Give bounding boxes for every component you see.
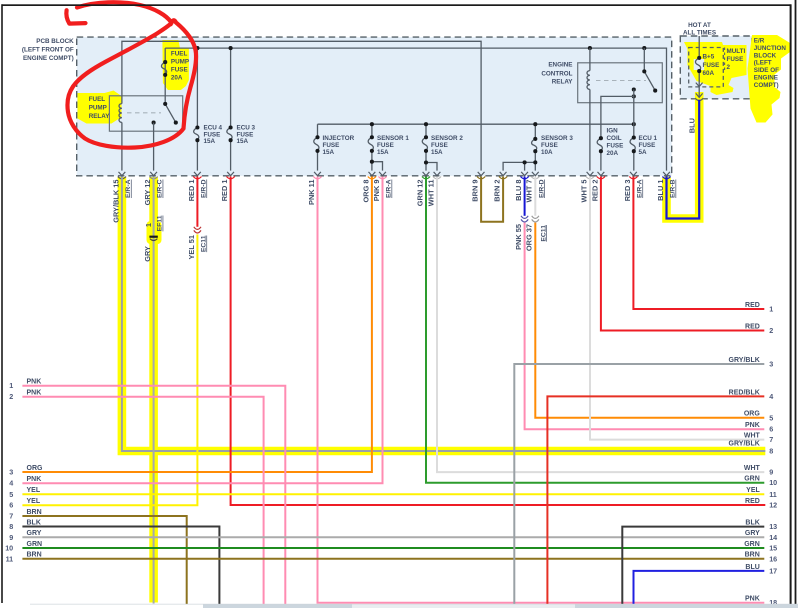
SENSOR 1 fuse dots bbox=[370, 135, 374, 139]
red annotation arrowhead bbox=[66, 10, 85, 23]
svg-text:3: 3 bbox=[9, 468, 13, 477]
svg-text:10: 10 bbox=[769, 478, 777, 487]
block exit arrow and connector cup at x=437 bbox=[434, 172, 441, 176]
svg-text:9: 9 bbox=[769, 468, 773, 477]
svg-text:60A: 60A bbox=[703, 70, 715, 77]
fuel pump fuse F/P 20A squiggle bbox=[161, 62, 166, 75]
wire: SENSOR 3 output tee to BRN 2 and BLU 8 bbox=[503, 162, 535, 170]
SENSOR 2 fuse dots bbox=[424, 135, 428, 139]
svg-text:BRN: BRN bbox=[745, 552, 760, 559]
svg-text:ENGINE COMPT): ENGINE COMPT) bbox=[23, 55, 74, 62]
svg-text:15: 15 bbox=[769, 544, 777, 553]
block exit arrow and connector cup at x=197.4 bbox=[194, 172, 201, 176]
svg-text:15A: 15A bbox=[377, 149, 389, 156]
ECU 3 fuse squiggle cover bbox=[225, 129, 236, 140]
svg-text:BLU 1: BLU 1 bbox=[656, 180, 665, 201]
wire: fuel pump relay coil to GRY/BLK 15 exit bbox=[121, 122, 123, 170]
row 5/11 YEL wire bbox=[22, 493, 764, 495]
B+5 fuse dots bbox=[697, 56, 701, 60]
wire: ECU 4 fuse drop bbox=[196, 48, 198, 171]
svg-text:14: 14 bbox=[769, 533, 777, 542]
svg-text:WHT: WHT bbox=[744, 465, 761, 472]
svg-text:RED: RED bbox=[745, 498, 760, 505]
wire BRN 9 - BRN 2 loop bbox=[481, 177, 503, 222]
ECU 1 fuse squiggle cover bbox=[628, 139, 639, 150]
window edge right line bbox=[795, 0, 797, 606]
ECU 3 fuse squiggle bbox=[227, 128, 232, 141]
wire GRN 12 to right row 10 bbox=[426, 177, 764, 483]
wire: engine control relay coil branch (bus to WHT 5 exit) bbox=[589, 48, 591, 171]
svg-text:YEL: YEL bbox=[27, 487, 41, 494]
svg-text:PNK: PNK bbox=[27, 379, 42, 386]
svg-text:16: 16 bbox=[769, 554, 777, 563]
highlight blob over FUEL PUMP FUSE label bbox=[162, 40, 189, 90]
svg-text:COIL: COIL bbox=[607, 135, 622, 142]
svg-text:ALL TIMES: ALL TIMES bbox=[683, 30, 716, 37]
wire: fuel pump fuse branch (bus to relay switch) bbox=[164, 48, 166, 104]
left row 7 BRN wire bbox=[22, 516, 186, 604]
svg-text:GRN: GRN bbox=[27, 541, 43, 548]
svg-text:1: 1 bbox=[144, 223, 153, 227]
block exit arrow and connector cup at x=666.5 bbox=[663, 172, 670, 176]
svg-text:E/R-C: E/R-C bbox=[157, 179, 164, 198]
B+5 fuse output arrow bbox=[696, 83, 703, 87]
engine control relay box bbox=[578, 63, 663, 103]
svg-text:FUSE: FUSE bbox=[541, 142, 558, 149]
svg-text:BLU: BLU bbox=[745, 564, 759, 571]
EF11 splice symbol on GRY wire bbox=[149, 236, 157, 238]
ECU 1 fuse squiggle bbox=[630, 138, 635, 152]
svg-text:12: 12 bbox=[769, 501, 777, 510]
wire: relay output to sensor bus / ECU 1 fuse / RED 3 exit bbox=[633, 96, 635, 170]
svg-text:PNK 55: PNK 55 bbox=[514, 224, 523, 250]
block exit arrow and connector cup at x=153.6 bbox=[150, 172, 157, 176]
svg-text:FUSE: FUSE bbox=[171, 67, 188, 74]
svg-text:5: 5 bbox=[769, 413, 773, 422]
svg-text:1: 1 bbox=[9, 381, 13, 390]
highlight blob over EF11 splice on GRY wire bbox=[147, 221, 162, 244]
EC11 inline connector chevrons (BLU/PNK) bbox=[521, 216, 528, 219]
svg-text:YEL 51: YEL 51 bbox=[187, 235, 196, 260]
svg-text:INJECTOR: INJECTOR bbox=[323, 135, 355, 142]
highlight blob over E/R JUNCTION BLOCK label bbox=[748, 35, 791, 123]
svg-text:GRY: GRY bbox=[27, 530, 42, 537]
svg-text:IGN: IGN bbox=[607, 128, 619, 135]
svg-text:4: 4 bbox=[769, 392, 773, 401]
svg-text:RED/BLK: RED/BLK bbox=[729, 389, 760, 396]
left row 2 PNK wire bbox=[22, 397, 263, 604]
svg-text:15A: 15A bbox=[323, 149, 335, 156]
wire: sensor fuse bus bbox=[318, 123, 634, 125]
wire: relay output to IGN COIL fuse and RED 2 exit bbox=[601, 90, 634, 171]
svg-text:RELAY: RELAY bbox=[552, 78, 574, 85]
svg-text:GRY 12: GRY 12 bbox=[143, 180, 152, 206]
engine control relay dashed actuator link bbox=[596, 80, 646, 82]
svg-text:BRN 9: BRN 9 bbox=[471, 180, 480, 202]
engine control relay switch dots bbox=[642, 69, 646, 73]
wire PNK 11 to right row 18 bbox=[318, 177, 765, 603]
svg-text:6: 6 bbox=[9, 501, 13, 510]
svg-text:ECU 1: ECU 1 bbox=[639, 135, 658, 142]
right row 4 RED/BLK wire bbox=[547, 396, 764, 604]
block exit arrow and connector cup at x=590 bbox=[587, 172, 594, 176]
svg-text:2: 2 bbox=[9, 392, 13, 401]
left row 8 BLK wire bbox=[22, 527, 219, 605]
svg-text:E/R-D: E/R-D bbox=[538, 179, 545, 198]
bottom gray band lighter segment bbox=[352, 604, 575, 608]
B+5 fuse inner dashed box bbox=[689, 48, 724, 87]
svg-text:4: 4 bbox=[9, 479, 13, 488]
svg-text:BRN 2: BRN 2 bbox=[493, 180, 502, 202]
svg-text:FUEL: FUEL bbox=[89, 96, 106, 103]
svg-text:FUEL: FUEL bbox=[171, 51, 188, 58]
svg-text:WHT: WHT bbox=[744, 433, 761, 440]
svg-text:GRY: GRY bbox=[745, 530, 760, 537]
B+5 fuse squiggle bbox=[695, 58, 700, 71]
svg-text:20A: 20A bbox=[607, 150, 619, 157]
svg-text:SENSOR 3: SENSOR 3 bbox=[541, 135, 573, 142]
ECU 3 fuse drop bbox=[230, 48, 232, 171]
IGN COIL fuse squiggle bbox=[597, 138, 602, 151]
SENSOR 3 fuse dots bbox=[533, 137, 537, 141]
wire: SENSOR 1 fuse drop and split bbox=[372, 124, 383, 170]
bottom edge hairline bbox=[30, 603, 798, 606]
svg-text:FUSE: FUSE bbox=[639, 142, 656, 149]
block exit arrow and connector cup at x=230.6 bbox=[227, 172, 234, 176]
svg-text:WHT 7: WHT 7 bbox=[525, 180, 534, 203]
fuel pump relay dashed actuator link bbox=[127, 112, 161, 114]
svg-text:MULTI: MULTI bbox=[727, 48, 746, 55]
svg-text:RED: RED bbox=[745, 302, 760, 309]
wire BLU 1 from B+5 fuse into PCB block bbox=[667, 100, 700, 219]
svg-text:WHT 5: WHT 5 bbox=[579, 180, 588, 203]
wire: fuel pump relay contact to GRY 12 exit bbox=[153, 123, 155, 171]
highlight band on BLU feed wire from B+5 fuse to E/R-B bbox=[667, 92, 700, 219]
svg-text:E/R-A: E/R-A bbox=[125, 179, 132, 198]
svg-text:20A: 20A bbox=[171, 75, 183, 82]
svg-text:13: 13 bbox=[769, 522, 777, 531]
B+5 fuse squiggle cover bbox=[694, 59, 705, 70]
svg-text:BLU: BLU bbox=[688, 118, 697, 133]
svg-text:(LEFT FRONT OF: (LEFT FRONT OF bbox=[22, 47, 74, 54]
svg-text:E/R: E/R bbox=[754, 38, 765, 45]
ECU 3 fuse dots bbox=[229, 125, 233, 129]
wire RED 1 to right row 12 bbox=[231, 177, 766, 506]
sensor bus junction dots bbox=[370, 122, 374, 126]
block exit arrow and connector cup at x=382.5 bbox=[379, 172, 386, 176]
PCB block (light blue fill, dashed border) bbox=[77, 37, 672, 176]
svg-text:RELAY: RELAY bbox=[89, 113, 111, 120]
svg-text:PUMP: PUMP bbox=[89, 104, 107, 111]
wire: top supply bus from fuel pump fuse to BLU 1 entry bbox=[165, 48, 666, 171]
left row 1 PNK wire bbox=[22, 386, 285, 604]
wire PNK 55 from EC11 to right row 6 bbox=[525, 223, 765, 430]
wire WHT 7 to EC11 bbox=[534, 177, 536, 216]
svg-text:GRY/BLK: GRY/BLK bbox=[729, 357, 760, 364]
svg-text:2: 2 bbox=[727, 64, 731, 71]
svg-text:7: 7 bbox=[9, 512, 13, 521]
svg-text:FUSE: FUSE bbox=[377, 142, 394, 149]
svg-text:5A: 5A bbox=[639, 149, 648, 156]
svg-text:FUSE: FUSE bbox=[431, 142, 448, 149]
svg-text:CONTROL: CONTROL bbox=[541, 70, 572, 77]
block exit arrow and connector cup at x=371.9 bbox=[369, 172, 376, 176]
wire ORG 8 to left row 3 bbox=[22, 177, 372, 473]
row 10/15 GRN wire bbox=[22, 547, 764, 549]
svg-text:GRY/BLK 15: GRY/BLK 15 bbox=[111, 180, 120, 223]
wire: B+5 60A fuse in E/R junction block bbox=[698, 36, 700, 86]
block exit arrow and connector cup at x=524.6 bbox=[521, 172, 528, 176]
svg-text:EF11: EF11 bbox=[157, 215, 164, 231]
page frame right line bbox=[790, 4, 792, 604]
svg-text:GRY/BLK: GRY/BLK bbox=[729, 441, 760, 448]
ECU 4 fuse squiggle cover bbox=[192, 129, 203, 140]
svg-text:BRN: BRN bbox=[27, 552, 42, 559]
block exit arrow and connector cup at x=121.9 bbox=[119, 172, 126, 176]
right row 17 BLU wire bbox=[634, 571, 765, 604]
svg-text:WHT 11: WHT 11 bbox=[426, 180, 435, 207]
block exit arrow and connector cup at x=481.1 bbox=[478, 172, 485, 176]
wire PNK 9 to left row 4 bbox=[22, 177, 382, 484]
SENSOR 3 fuse squiggle cover bbox=[530, 140, 541, 150]
svg-text:SIDE OF: SIDE OF bbox=[754, 67, 779, 74]
svg-text:B+5: B+5 bbox=[703, 54, 715, 61]
wire: engine control relay switch feed bbox=[643, 48, 645, 71]
block exit arrow and connector cup at x=600.9 bbox=[598, 172, 605, 176]
svg-text:RED 2: RED 2 bbox=[590, 180, 599, 202]
svg-text:E/R-A: E/R-A bbox=[636, 179, 643, 198]
fuel pump relay box bbox=[109, 96, 182, 131]
SENSOR 3 fuse squiggle bbox=[532, 139, 537, 151]
ECU 4 fuse squiggle bbox=[194, 128, 199, 141]
svg-text:FUSE: FUSE bbox=[703, 62, 720, 69]
wire BLU 8 to EC11 bbox=[524, 177, 526, 216]
svg-text:PNK 11: PNK 11 bbox=[307, 180, 316, 205]
svg-text:15A: 15A bbox=[204, 138, 216, 145]
INJECTOR fuse dots bbox=[315, 135, 319, 139]
wire WHT 5 to right row 7 bbox=[590, 177, 764, 440]
svg-text:PNK: PNK bbox=[745, 596, 760, 603]
wire: SENSOR 3 fuse drop (to WHT 7 exit) bbox=[534, 124, 536, 170]
svg-text:RED 3: RED 3 bbox=[623, 180, 632, 202]
wire WHT 11 to right row 9 bbox=[437, 177, 764, 473]
EC11 inline connector chevrons (RED/YEL) bbox=[194, 227, 201, 230]
svg-text:17: 17 bbox=[769, 566, 777, 575]
highlight band on GRY 12 wire bbox=[149, 177, 158, 603]
wire: INJECTOR fuse drop bbox=[317, 124, 319, 170]
block exit arrow and connector cup at x=426 bbox=[423, 172, 430, 176]
engine control relay coil bbox=[587, 71, 590, 90]
svg-text:PNK: PNK bbox=[27, 390, 42, 397]
svg-text:15A: 15A bbox=[237, 138, 249, 145]
svg-text:ORG: ORG bbox=[744, 411, 761, 418]
SENSOR 3 tee junction dots bbox=[523, 160, 527, 164]
svg-text:PCB BLOCK: PCB BLOCK bbox=[36, 38, 74, 45]
bottom gray band bbox=[203, 604, 798, 608]
wire RED 3 to right row 1 bbox=[633, 177, 764, 310]
svg-text:6: 6 bbox=[769, 425, 773, 434]
svg-text:YEL: YEL bbox=[27, 498, 41, 505]
svg-text:PNK: PNK bbox=[27, 476, 42, 483]
svg-text:GRN 12: GRN 12 bbox=[415, 180, 424, 207]
svg-text:RED: RED bbox=[745, 323, 760, 330]
svg-text:2: 2 bbox=[769, 326, 773, 335]
block exit arrow and connector cup at x=633.4 bbox=[630, 172, 637, 176]
svg-text:10A: 10A bbox=[541, 149, 553, 156]
wire GRY 12 down to bottom edge bbox=[153, 177, 155, 604]
IGN COIL fuse dots bbox=[599, 136, 603, 140]
svg-text:BLU 8: BLU 8 bbox=[514, 180, 523, 201]
ECU 4 fuse dots bbox=[195, 125, 199, 129]
wire YEL 51 from EC11 to left row 6 bbox=[22, 234, 197, 505]
svg-text:FUSE: FUSE bbox=[727, 56, 744, 63]
wire RED 2 to right row 2 bbox=[601, 177, 764, 331]
svg-text:EC11: EC11 bbox=[200, 235, 207, 252]
fuel pump fuse terminal dots bbox=[163, 60, 167, 64]
block exit arrow and connector cup at x=535.3 bbox=[532, 172, 539, 176]
page frame left line bbox=[1, 4, 3, 603]
block exit arrow and connector cup at x=317.5 bbox=[314, 172, 321, 176]
INJECTOR fuse squiggle bbox=[314, 137, 319, 151]
svg-text:11: 11 bbox=[6, 554, 14, 563]
red annotation lasso around fuel pump relay circuit bbox=[68, 2, 197, 147]
svg-text:EC11: EC11 bbox=[540, 225, 547, 242]
svg-text:JUNCTION: JUNCTION bbox=[754, 45, 787, 52]
fuel pump relay coil bbox=[119, 104, 122, 123]
svg-text:GRN: GRN bbox=[744, 476, 760, 483]
svg-text:ORG 37: ORG 37 bbox=[525, 224, 534, 251]
svg-text:E/R-B: E/R-B bbox=[670, 179, 677, 198]
SENSOR 2 fuse squiggle cover bbox=[421, 138, 432, 148]
svg-text:BLK: BLK bbox=[27, 519, 41, 526]
svg-text:PNK 9: PNK 9 bbox=[372, 180, 381, 202]
svg-text:PUMP: PUMP bbox=[171, 59, 189, 66]
top bus junction dots bbox=[195, 46, 199, 50]
fuel pump relay switch dots bbox=[163, 102, 167, 106]
svg-text:BLOCK: BLOCK bbox=[754, 52, 777, 59]
svg-text:GRY: GRY bbox=[143, 246, 152, 262]
svg-text:E/R-A: E/R-A bbox=[386, 179, 393, 198]
svg-text:(LEFT: (LEFT bbox=[754, 60, 772, 67]
svg-text:ENGINE: ENGINE bbox=[754, 75, 778, 82]
svg-text:11: 11 bbox=[769, 490, 777, 499]
SENSOR 1 fuse squiggle bbox=[368, 137, 373, 151]
svg-text:FUSE: FUSE bbox=[323, 142, 340, 149]
svg-text:3: 3 bbox=[769, 360, 773, 369]
svg-text:9: 9 bbox=[9, 533, 13, 542]
svg-text:1: 1 bbox=[769, 305, 773, 314]
svg-text:SENSOR 2: SENSOR 2 bbox=[431, 135, 463, 142]
INJECTOR fuse squiggle cover bbox=[312, 138, 323, 148]
svg-text:ORG 8: ORG 8 bbox=[361, 180, 370, 203]
svg-text:FUSE: FUSE bbox=[607, 143, 624, 150]
wire: SENSOR 2 fuse drop and split bbox=[426, 124, 437, 170]
right row 13 BLK wire bbox=[622, 527, 764, 604]
svg-text:10: 10 bbox=[5, 544, 13, 553]
SENSOR 1 fuse squiggle cover bbox=[366, 138, 377, 148]
svg-text:ENGINE: ENGINE bbox=[548, 62, 572, 69]
block exit arrow and connector cup at x=503.1 bbox=[500, 172, 507, 176]
IGN COIL fuse squiggle cover bbox=[595, 139, 606, 150]
svg-text:8: 8 bbox=[9, 522, 13, 531]
ECU 1 fuse dots bbox=[632, 136, 636, 140]
svg-text:7: 7 bbox=[769, 435, 773, 444]
wire RED 1 (E/R-D) to EC11 bbox=[196, 177, 198, 227]
highlight blob over FUEL PUMP RELAY label bbox=[78, 91, 122, 124]
engine control relay switch blade bbox=[644, 71, 655, 90]
svg-text:SENSOR 1: SENSOR 1 bbox=[377, 135, 409, 142]
svg-text:ORG: ORG bbox=[27, 465, 44, 472]
page frame top line bbox=[2, 4, 791, 6]
svg-text:BLK: BLK bbox=[745, 520, 759, 527]
right row 3 GRY/BLK wire bbox=[514, 364, 764, 604]
svg-text:HOT AT: HOT AT bbox=[688, 22, 711, 29]
EC11 inline connector chevrons (WHT/ORG) bbox=[532, 216, 539, 219]
E/R junction block (light blue fill, dashed border) bbox=[680, 36, 752, 99]
SENSOR 2 fuse squiggle bbox=[422, 137, 427, 151]
svg-text:GRN: GRN bbox=[744, 541, 760, 548]
fuel pump relay switch blade bbox=[165, 104, 176, 123]
row 11/16 BRN wire bbox=[22, 558, 764, 560]
svg-text:RED 1: RED 1 bbox=[220, 180, 229, 202]
svg-text:E/R-D: E/R-D bbox=[200, 179, 207, 198]
row 9/14 GRY wire bbox=[22, 536, 764, 538]
MULTI FUSE dashed separator bbox=[724, 48, 726, 71]
wire ORG 37 from EC11 to right row 5 bbox=[535, 223, 764, 418]
highlight blob over B+5 / MULTI fuse in E/R junction block bbox=[684, 42, 747, 95]
svg-text:YEL: YEL bbox=[746, 487, 760, 494]
svg-text:BRN: BRN bbox=[27, 509, 42, 516]
svg-text:RED 1: RED 1 bbox=[187, 180, 196, 202]
svg-text:8: 8 bbox=[769, 447, 773, 456]
highlight band on GRY/BLK 15 wire down and along right row 8 bbox=[122, 177, 765, 451]
svg-text:5: 5 bbox=[9, 490, 13, 499]
svg-text:PNK: PNK bbox=[745, 422, 760, 429]
svg-text:15A: 15A bbox=[431, 149, 443, 156]
wire: fuel pump relay coil feed (up and over to BRN 9 drop) bbox=[122, 41, 481, 170]
svg-text:COMPT): COMPT) bbox=[754, 82, 779, 89]
wire GRY/BLK 15 to right row 8 bbox=[122, 177, 765, 452]
